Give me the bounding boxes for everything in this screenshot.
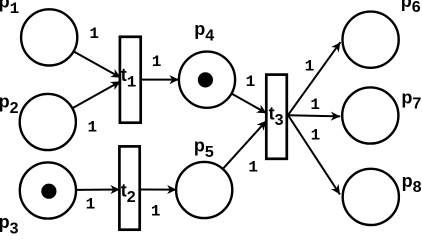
token in p3 [41, 184, 56, 199]
place p2 [20, 94, 76, 150]
arc p2 to t1 [73, 81, 120, 108]
arc t3 to p6 [288, 42, 340, 115]
weight 1 on arc p5-t3 [248, 159, 258, 177]
weight 1 on arc t3-p8 [311, 126, 321, 144]
svg-text:t1: t1 [121, 65, 137, 91]
label t1 [121, 65, 137, 91]
place p3 [20, 162, 76, 218]
svg-text:1: 1 [311, 126, 321, 144]
place p6 [343, 12, 399, 68]
svg-text:1: 1 [87, 119, 97, 137]
arc t1 to p4 [141, 79, 179, 81]
arc p4 to t3 [231, 94, 266, 114]
label p7 [401, 87, 421, 112]
svg-text:1: 1 [86, 196, 96, 214]
place p7 [342, 87, 398, 143]
arc p5 to t3 [223, 121, 267, 169]
weight 1 on arc t1-p4 [152, 53, 162, 71]
svg-text:t2: t2 [121, 180, 136, 205]
svg-text:1: 1 [248, 159, 258, 177]
label p1 [0, 0, 19, 18]
label p8 [402, 171, 422, 196]
svg-text:p1: p1 [0, 0, 19, 18]
weight 1 on arc p1-t1 [89, 25, 99, 43]
label t2 [121, 180, 136, 205]
label p2 [0, 92, 19, 117]
svg-text:p2: p2 [0, 92, 19, 117]
weight 1 on arc t3-p6 [305, 57, 315, 75]
svg-text:1: 1 [151, 203, 161, 221]
svg-text:1: 1 [89, 25, 99, 43]
svg-text:p4: p4 [194, 19, 214, 44]
label p3 [0, 212, 19, 237]
weight 1 on arc p3-t2 [86, 196, 96, 214]
place p4 [179, 52, 235, 108]
label t3 [269, 103, 284, 128]
arc t3 to p8 [288, 115, 340, 194]
svg-text:1: 1 [305, 57, 315, 75]
transition t3 [266, 75, 287, 159]
transition t1 [120, 37, 141, 123]
svg-text:p5: p5 [194, 136, 214, 161]
label p5 [194, 136, 214, 161]
place p5 [176, 162, 232, 218]
svg-text:p7: p7 [401, 87, 421, 112]
label p6 [401, 0, 421, 16]
arc t3 to p7 [288, 115, 340, 116]
arc p3 to t2 [77, 189, 120, 191]
place p1 [21, 9, 77, 65]
weight 1 on arc t3-p7 [310, 96, 320, 114]
transition t2 [119, 146, 139, 229]
label p4 [194, 19, 214, 44]
weight 1 on arc p4-t3 [246, 73, 256, 91]
place p8 [343, 169, 399, 225]
token in p4 [198, 72, 213, 87]
svg-text:p3: p3 [0, 212, 19, 236]
weight 1 on arc p2-t1 [87, 119, 97, 137]
weight 1 on arc t2-p5 [151, 203, 161, 221]
svg-text:1: 1 [310, 96, 320, 114]
arc t2 to p5 [140, 189, 177, 191]
svg-text:p8: p8 [402, 171, 422, 196]
arc p1 to t1 [74, 52, 121, 78]
svg-text:1: 1 [152, 53, 162, 71]
svg-text:t3: t3 [269, 103, 284, 128]
svg-text:1: 1 [246, 73, 256, 91]
svg-text:p6: p6 [401, 0, 421, 16]
